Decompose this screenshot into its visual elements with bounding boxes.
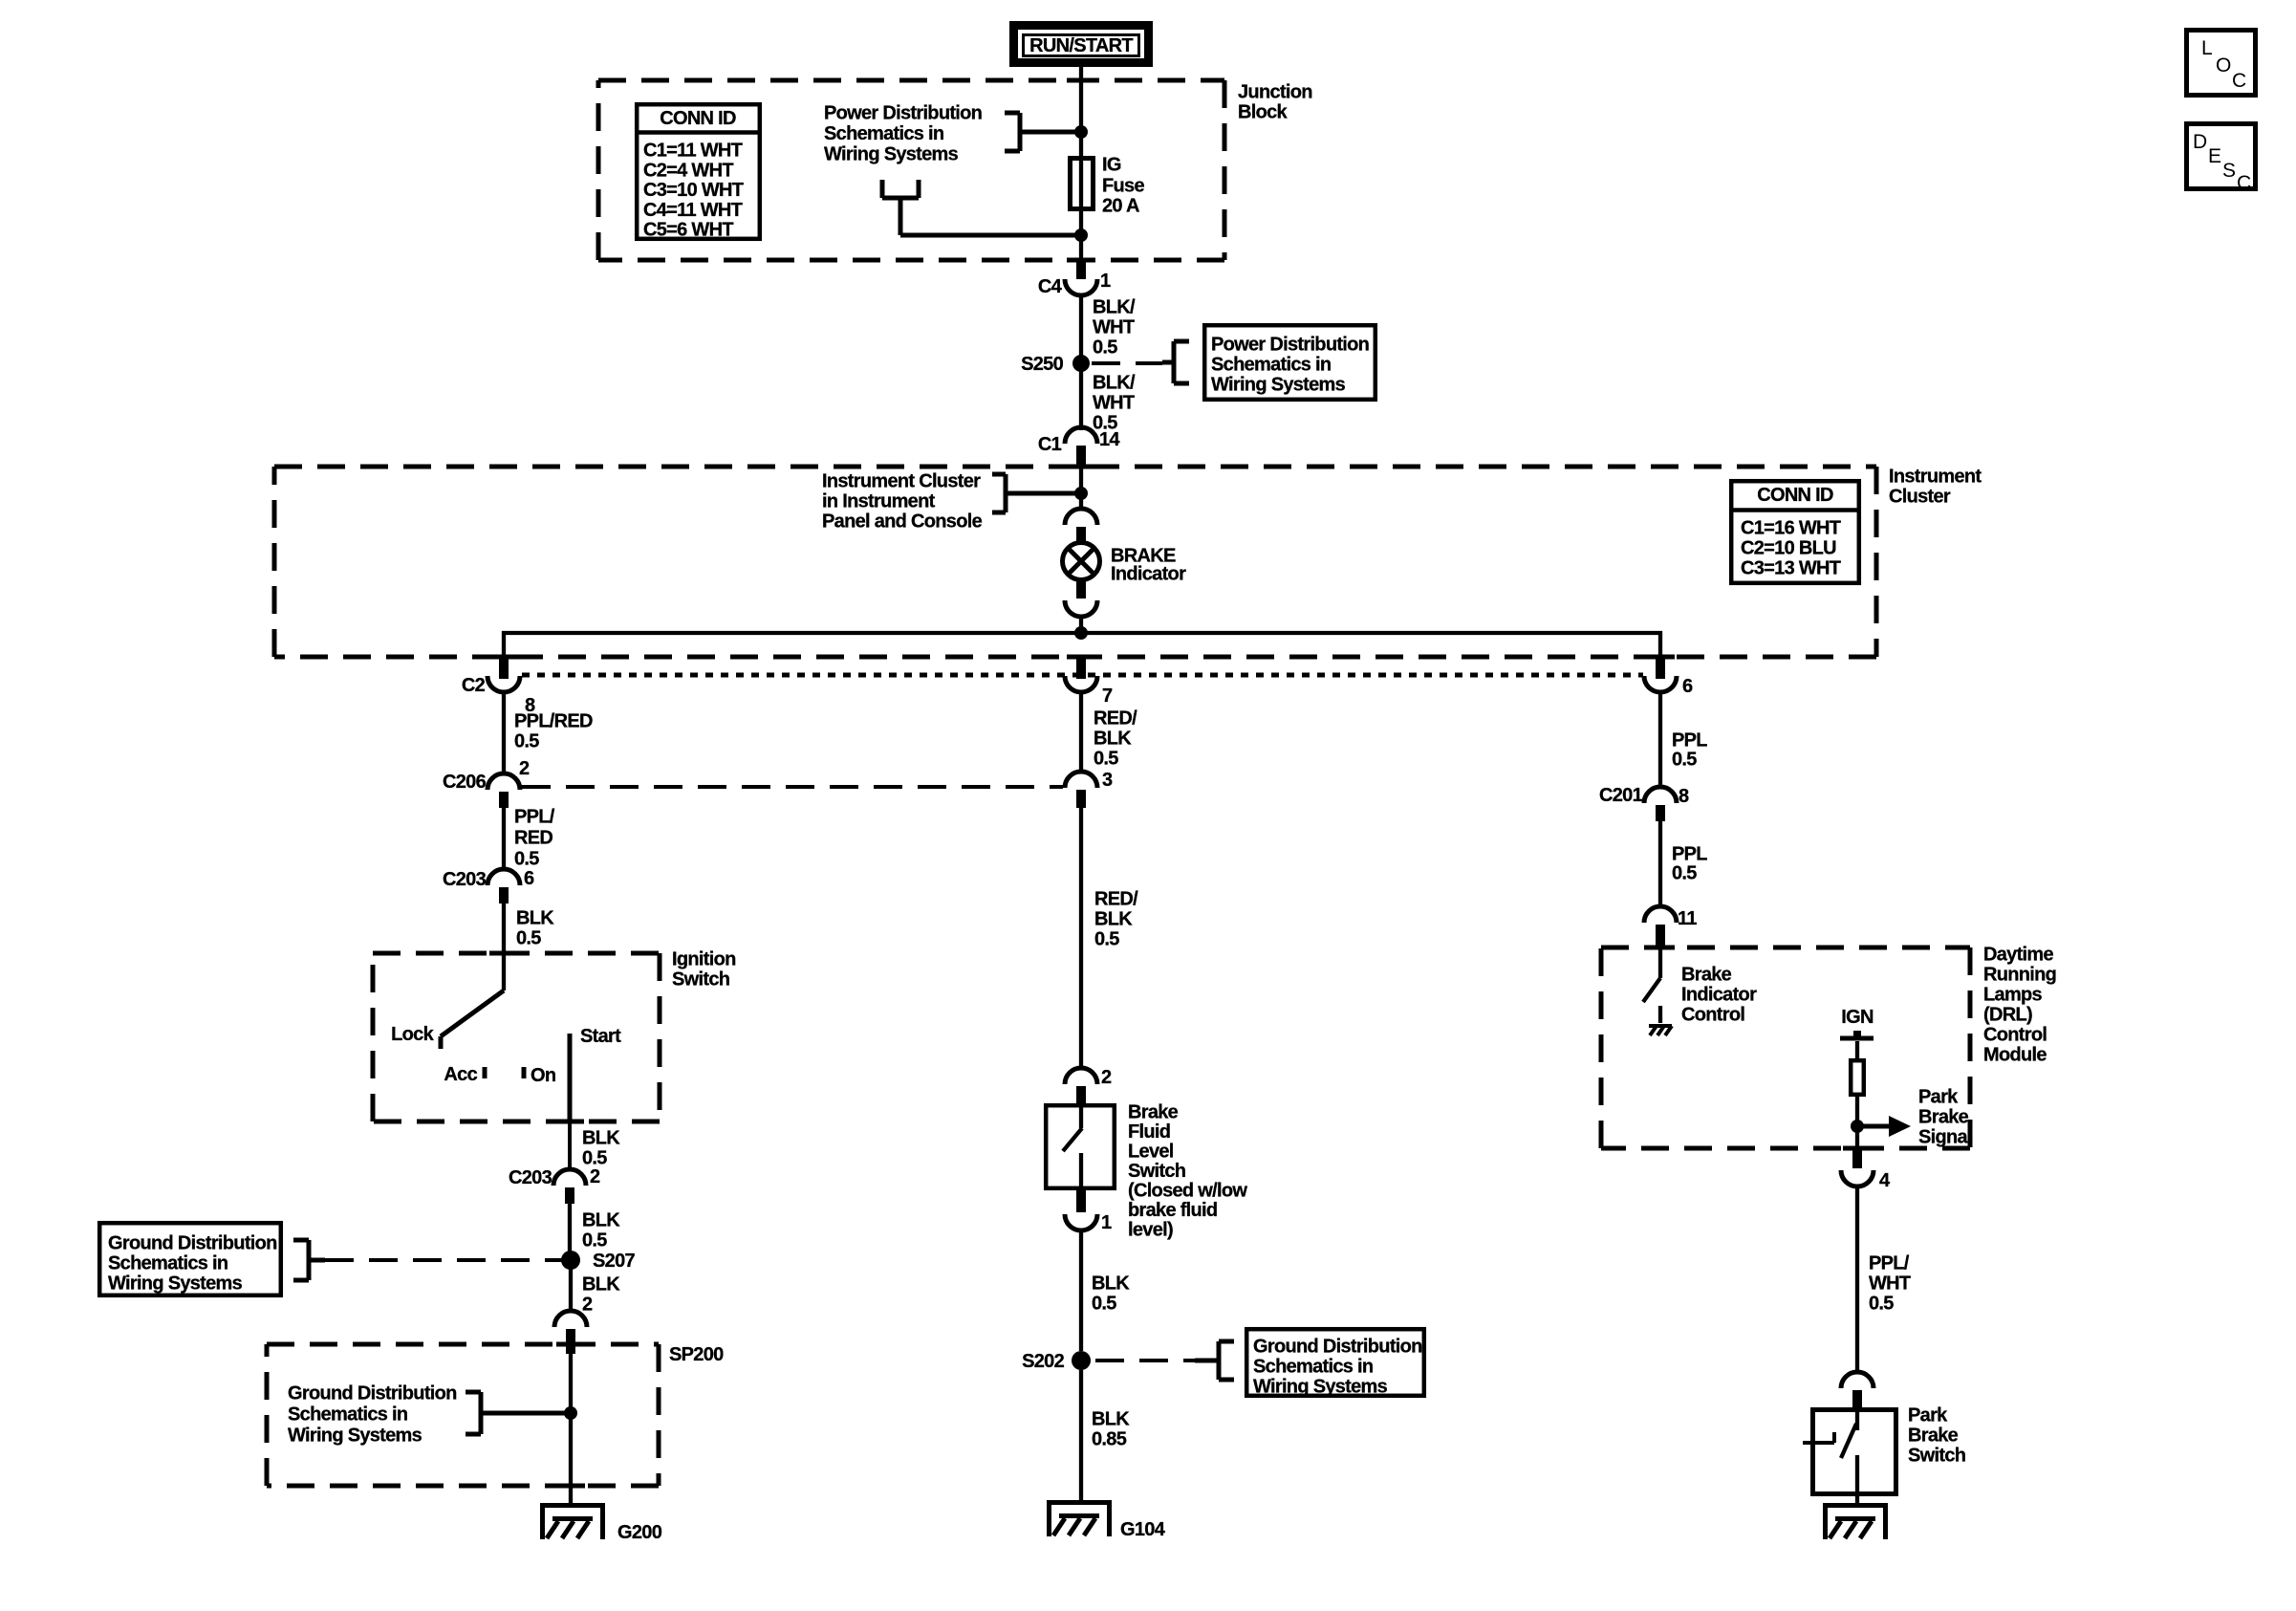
svg-text:0.5: 0.5 [1672,750,1697,771]
connector pin 2 (brake fluid level switch) [1065,1067,1112,1105]
wire PPL 0.5 (C201 to pin 11) [1660,821,1707,906]
bracket to wire [1005,113,1081,151]
svg-text:0.85: 0.85 [1092,1429,1127,1450]
CONN ID table (junction block) [635,104,762,241]
svg-text:Brake: Brake [1918,1107,1969,1128]
svg-text:2: 2 [1101,1067,1112,1088]
contact Acc [444,1064,485,1085]
dashed reference link [325,1258,564,1262]
DRL control module (dashed box) [1601,947,1970,1148]
svg-text:BLK/: BLK/ [1093,373,1136,394]
lamp terminal (bottom connector) [1076,578,1086,599]
dashed reference link [1092,361,1162,365]
svg-text:Ground Distribution: Ground Distribution [108,1233,277,1254]
svg-text:C201: C201 [1599,785,1643,806]
svg-text:C1=11 WHT: C1=11 WHT [643,141,743,162]
park brake switch connector [1841,1372,1874,1388]
svg-text:brake fluid: brake fluid [1128,1200,1217,1221]
wire RED/BLK 0.5 (pin 7 to pin 3) [1081,692,1137,773]
brake indicator control switch [1643,947,1660,1023]
splice pack SP200 [554,1311,724,1365]
label Instrument Cluster in Instrument Panel and Console [822,471,983,533]
reference box Ground Distribution Schematics in Wiring Systems (S207) [99,1223,281,1295]
svg-text:PPL/RED: PPL/RED [514,711,593,732]
svg-text:RED: RED [514,828,552,849]
wire PPL/RED 0.5 (C206 to C203) [504,807,555,871]
LOC reference box [2187,31,2256,96]
brake fluid level switch [1046,1102,1247,1241]
svg-text:S: S [2222,160,2236,182]
svg-text:WHT: WHT [1869,1274,1911,1295]
svg-text:Schematics in: Schematics in [824,123,943,144]
svg-text:Module: Module [1983,1045,2047,1066]
svg-text:0.5: 0.5 [514,731,539,752]
label Brake Indicator Control [1681,965,1757,1026]
svg-text:Switch: Switch [672,969,729,991]
svg-text:Lamps: Lamps [1983,985,2043,1006]
svg-text:CONN ID: CONN ID [660,108,736,129]
connector pin 7 [1065,659,1113,707]
wire BLK 0.5 (pin 1 to S202) [1081,1230,1130,1351]
svg-text:Block: Block [1238,102,1289,123]
svg-text:C1=16 WHT: C1=16 WHT [1741,518,1841,539]
connector pin 1 [1065,1190,1112,1233]
wire lamp to cluster bus [1079,617,1083,635]
svg-text:C203: C203 [509,1167,552,1188]
svg-text:C203: C203 [443,869,487,890]
svg-text:Indicator: Indicator [1681,985,1757,1006]
IGN feed [1840,1007,1874,1058]
wire RUN/START to junction block [1079,67,1083,159]
wire to fuse node [900,233,1081,238]
svg-text:Schematics in: Schematics in [1211,355,1331,376]
svg-text:0.5: 0.5 [514,849,539,870]
svg-text:Acc: Acc [444,1064,477,1085]
label Ignition Switch [672,949,736,991]
svg-text:PPL: PPL [1672,844,1707,865]
svg-text:11: 11 [1678,908,1697,929]
label Instrument Cluster [1889,467,1982,508]
svg-text:C1: C1 [1038,434,1062,455]
connector pin 11 (DRL module) [1644,906,1697,949]
svg-text:Fuse: Fuse [1102,176,1144,197]
connector C2 pin 8 [462,659,535,716]
CONN ID table (instrument cluster) [1729,481,1861,583]
svg-text:C4=11 WHT: C4=11 WHT [643,200,743,221]
svg-text:Power Distribution: Power Distribution [1211,335,1369,356]
wire through fuse [1079,159,1083,266]
contact Start [570,1026,621,1121]
svg-text:C: C [2232,70,2246,92]
svg-text:O: O [2216,54,2231,76]
label Park Brake Signal [1918,1087,1972,1148]
svg-text:Ground Distribution: Ground Distribution [1253,1337,1422,1358]
junction [1074,487,1088,500]
svg-text:Brake: Brake [1681,965,1732,986]
svg-text:WHT: WHT [1093,393,1135,414]
svg-text:7: 7 [1102,686,1113,707]
svg-text:Brake: Brake [1128,1102,1179,1123]
svg-text:0.5: 0.5 [1092,1294,1116,1315]
svg-text:Instrument: Instrument [1889,467,1982,488]
svg-text:0.5: 0.5 [1672,863,1697,884]
svg-text:SP200: SP200 [669,1344,724,1365]
svg-text:Cluster: Cluster [1889,487,1951,508]
svg-text:PPL/: PPL/ [1869,1253,1910,1274]
connector pin 3 [1065,770,1113,808]
svg-text:in Instrument: in Instrument [822,491,936,512]
svg-text:Brake: Brake [1908,1426,1959,1447]
svg-text:Schematics in: Schematics in [288,1404,407,1426]
svg-text:Lock: Lock [391,1024,434,1045]
svg-text:Signal: Signal [1918,1127,1972,1148]
svg-text:BLK: BLK [582,1128,620,1149]
ground G200 [540,1503,662,1543]
svg-text:RED/: RED/ [1094,708,1137,729]
connector C203 pin 6 [443,868,534,903]
svg-text:BLK: BLK [582,1210,620,1231]
svg-text:6: 6 [1682,676,1693,697]
ground (park brake switch) [1823,1503,1888,1508]
contact Lock [391,1024,441,1049]
svg-text:Start: Start [580,1026,621,1047]
wire BLK/WHT 0.5 (S250 to C1) [1081,371,1136,434]
svg-text:2: 2 [519,758,530,779]
lamp terminal (top connector) [1065,509,1097,525]
svg-text:PPL/: PPL/ [514,807,555,828]
svg-text:C2: C2 [462,675,486,696]
junction [1074,229,1088,242]
svg-text:Schematics in: Schematics in [1253,1357,1373,1378]
junction block (dashed box) [598,80,1224,260]
svg-text:20 A: 20 A [1102,196,1139,217]
bracket [1172,341,1177,383]
svg-text:PPL: PPL [1672,730,1707,751]
svg-text:Wiring Systems: Wiring Systems [1253,1377,1388,1398]
svg-text:C2=4 WHT: C2=4 WHT [643,160,733,181]
wire to ground [569,1354,573,1505]
contact On [524,1065,555,1086]
svg-text:Park: Park [1918,1087,1959,1108]
svg-text:Instrument Cluster: Instrument Cluster [822,471,981,492]
svg-text:(DRL): (DRL) [1983,1005,2032,1026]
wire BLK 0.5 (C203 to ignition switch) [504,903,554,953]
wire resistor to pin 4 [1855,1095,1859,1150]
ignition switch (dashed box) [373,953,660,1121]
ground G104 [1047,1500,1166,1540]
splice S207 [561,1251,635,1272]
connector C206 pin 2 [443,758,530,808]
svg-text:Running: Running [1983,965,2056,986]
instrument cluster (dashed box) [274,467,1876,657]
svg-text:Switch: Switch [1128,1161,1185,1182]
svg-text:C: C [2237,172,2251,194]
label IG Fuse 20 A [1102,155,1144,217]
bracket [1217,1341,1222,1380]
svg-text:On: On [531,1065,555,1086]
svg-text:D: D [2193,131,2207,153]
svg-text:RED/: RED/ [1094,889,1138,910]
svg-text:CONN ID: CONN ID [1757,485,1833,506]
svg-text:G200: G200 [617,1522,662,1543]
svg-text:E: E [2208,145,2221,167]
connector C1 pin 14 [1038,427,1121,468]
label Junction Block [1238,82,1312,123]
svg-text:0.5: 0.5 [1094,749,1118,770]
wire BLK 0.5 (C203 to S207) [570,1204,620,1252]
wire BLK 0.5 (Start to C203) [570,1121,620,1170]
off-page feed bracket [882,180,919,235]
DESC reference box [2187,124,2256,195]
connector tie line (dotted) [522,673,1643,678]
svg-text:S250: S250 [1021,354,1063,375]
SP200 detail (dashed box) [267,1344,659,1486]
svg-text:IG: IG [1102,155,1121,176]
ignition switch wiper [502,953,506,991]
wire BLK/WHT 0.5 (C4 to S250) [1081,295,1136,359]
svg-text:Schematics in: Schematics in [108,1253,227,1274]
svg-text:BLK/: BLK/ [1093,297,1136,318]
svg-text:1: 1 [1100,271,1111,292]
wire PPL/RED 0.5 (pin 8 to C206) [504,692,593,773]
junction [564,1406,577,1420]
svg-text:Park: Park [1908,1405,1948,1426]
svg-text:IGN: IGN [1841,1007,1874,1028]
svg-text:Wiring Systems: Wiring Systems [288,1426,422,1447]
wire PPL/WHT 0.5 (pin 4 to park brake switch) [1857,1186,1911,1373]
connector pin 6 [1644,659,1693,697]
svg-text:WHT: WHT [1093,317,1135,338]
svg-text:8: 8 [1679,786,1689,807]
label Ground Distribution Schematics in Wiring Systems (SP200) [288,1383,457,1447]
svg-text:2: 2 [582,1295,593,1316]
svg-text:Daytime: Daytime [1983,945,2053,966]
svg-text:Power Distribution: Power Distribution [824,103,982,124]
wire to BRAKE indicator [1079,468,1083,509]
svg-text:C5=6 WHT: C5=6 WHT [643,220,733,241]
resistor [1851,1060,1864,1095]
ground (brake indicator control) [1649,1026,1672,1035]
wire PPL 0.5 (pin 6 to C201) [1660,692,1707,787]
splice S250 [1021,354,1090,375]
svg-text:BLK: BLK [1092,1409,1130,1430]
junction [1074,626,1088,640]
svg-text:(Closed w/low: (Closed w/low [1128,1181,1247,1202]
dashed connector link C206 to pin 3 [522,785,1063,789]
svg-text:G104: G104 [1120,1519,1166,1540]
svg-text:0.5: 0.5 [1869,1294,1894,1315]
svg-text:BLK: BLK [1092,1274,1130,1295]
wire BLK 0.85 (S202 to G104) [1081,1370,1130,1502]
svg-text:14: 14 [1099,429,1120,450]
svg-text:Control: Control [1983,1025,2047,1046]
svg-text:S202: S202 [1022,1351,1064,1372]
svg-text:0.5: 0.5 [1094,929,1119,950]
svg-text:BLK: BLK [1094,909,1133,930]
svg-text:3: 3 [1102,770,1113,791]
svg-text:level): level) [1128,1220,1173,1241]
splice S202 [1022,1351,1091,1372]
svg-text:C2=10 BLU: C2=10 BLU [1741,538,1836,559]
connector C203 pin 2 [509,1166,600,1204]
connector C201 pin 8 [1599,785,1689,821]
svg-text:Wiring Systems: Wiring Systems [108,1274,243,1295]
connector C4 pin 1 [1038,262,1111,297]
svg-text:RUN/START: RUN/START [1029,35,1133,56]
svg-text:1: 1 [1101,1212,1112,1233]
svg-text:4: 4 [1879,1170,1891,1191]
wire RED/BLK 0.5 (pin 3 to pin 2) [1081,808,1138,1068]
svg-text:BLK: BLK [582,1274,620,1295]
svg-text:Ignition: Ignition [672,949,736,970]
connector pin 4 [1841,1150,1891,1191]
svg-text:2: 2 [590,1166,600,1187]
dashed reference link [1095,1359,1195,1362]
reference box Power Distribution Schematics in Wiring Systems [1204,325,1375,400]
svg-text:6: 6 [524,868,534,889]
power feed RUN/START [1014,26,1149,63]
park brake signal arrow [1857,1116,1911,1137]
svg-text:Ground Distribution: Ground Distribution [288,1383,457,1404]
svg-text:C206: C206 [443,772,487,793]
svg-text:Switch: Switch [1908,1446,1965,1467]
svg-text:Control: Control [1681,1005,1744,1026]
svg-text:Panel and Console: Panel and Console [822,512,983,533]
svg-text:Level: Level [1128,1142,1174,1163]
bracket [307,1240,312,1280]
BRAKE indicator lamp [1063,543,1187,585]
wire BLK 2 (S207 to SP200) [571,1252,620,1316]
svg-text:L: L [2201,37,2213,59]
fuse IG 20 A [1071,159,1094,209]
svg-text:C4: C4 [1038,276,1063,297]
svg-text:C3=13 WHT: C3=13 WHT [1741,558,1841,579]
svg-text:Fluid: Fluid [1128,1121,1170,1143]
svg-text:0.5: 0.5 [1093,337,1117,359]
label Power Distribution Schematics in Wiring Systems (junction block) [824,103,982,165]
park brake switch [1803,1405,1965,1506]
svg-text:C3=10 WHT: C3=10 WHT [643,180,744,201]
svg-text:0.5: 0.5 [582,1230,607,1252]
svg-text:BLK: BLK [1094,729,1132,750]
wire cluster bus [504,633,1660,659]
label Daytime Running Lamps (DRL) Control Module [1983,945,2056,1066]
svg-text:Wiring Systems: Wiring Systems [1211,375,1346,396]
svg-text:Junction: Junction [1238,82,1312,103]
junction [1074,125,1088,139]
svg-text:0.5: 0.5 [516,928,541,949]
junction [1851,1120,1864,1133]
reference box Ground Distribution Schematics in Wiring Systems (S202) [1246,1329,1424,1397]
bracket [992,474,1081,512]
bracket [479,1392,484,1434]
svg-text:Indicator: Indicator [1111,564,1186,585]
svg-text:Wiring Systems: Wiring Systems [824,144,959,165]
svg-text:BLK: BLK [516,908,554,929]
svg-text:S207: S207 [593,1251,635,1272]
